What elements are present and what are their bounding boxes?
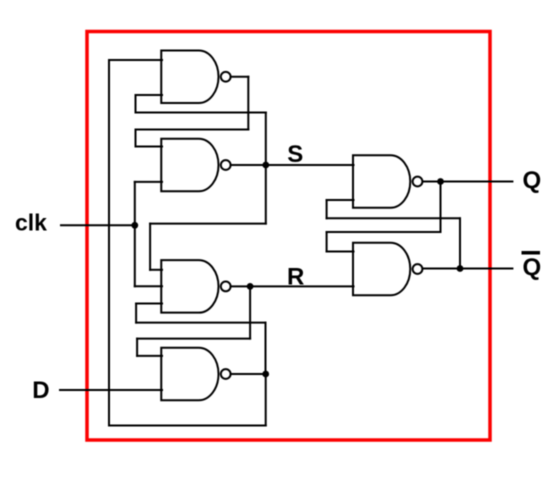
wire Q output [423,181,513,183]
wire vertical jog to U3 bottom input [135,304,137,323]
wire vertical jog to U1 lower input [135,95,137,113]
wire Q feedback horizontal [327,231,441,233]
wire S line (U2 output to U5 input) [231,164,354,166]
wire U3 top input [150,269,162,271]
node U4 output junction [262,371,269,378]
wire bottom loop horizontal [109,425,266,427]
wire U4 top input [137,355,162,357]
wire Qbar feedback vertical [459,218,461,268]
wire U4 output [231,373,266,375]
svg-text:clk: clk [15,210,47,236]
wire D input [60,389,162,391]
node S junction [262,162,269,169]
wire node S vertical down [265,165,267,224]
wire clk vertical bus [134,182,136,286]
wire jog for U5 lower input [326,200,328,218]
wire clk to U2 lower input [135,181,162,183]
node clk junction [131,222,138,229]
wire R feedback horizontal [137,338,250,340]
wire Qbar output [423,268,513,270]
wire long left vertical (U4 output to U1) [108,60,110,426]
wire R line (U3 output to U6 input) [231,285,354,287]
wire U5 lower input [327,199,354,201]
wire clk to U3 middle input [135,285,162,287]
node Q junction [437,178,444,185]
nand gate U3 [161,260,230,313]
wire node R vertical down [249,286,251,338]
wire U1 output [231,76,249,78]
svg-text:Q: Q [523,254,542,281]
svg-text:Q: Q [523,167,542,194]
wire U6 upper input [327,251,354,253]
svg-text:S: S [287,141,303,168]
boundary box (red) [87,32,490,441]
wire U2 upper input [136,146,163,148]
wire U1 lower input [136,94,163,96]
wire S feedback horizontal [150,223,266,225]
wire vertical jog to U4 top input [136,339,138,356]
wire U3 bottom input [136,303,162,305]
wire jog for U6 upper input [326,232,328,252]
nand gate U5 [353,155,422,208]
wire node S vertical up [265,113,267,166]
wire vertical jog to U3 top input [149,224,151,270]
wire U4 output node vertical down [265,374,267,426]
wire U1 top input [109,59,162,61]
node R junction [247,283,254,290]
nand gate U2 [161,139,230,192]
wire Q feedback vertical [440,182,442,233]
label Qbar [522,251,542,281]
wire clk input [61,224,135,226]
node Qbar junction [457,265,464,272]
wire vertical jog to U2 upper input [135,130,137,147]
svg-text:R: R [287,263,304,290]
wire U4 output node vertical up [265,323,267,374]
wire U1 output return horizontal [136,129,249,131]
wire U1 output vertical [247,77,249,130]
nand gate U1 [161,51,230,104]
nand gate U6 [353,243,422,296]
wire node S to U1 lower input horizontal [136,112,266,114]
nand gate U4 [161,348,230,401]
svg-text:D: D [32,377,49,404]
wire horizontal to U3 bottom input [136,322,265,324]
wire Qbar feedback horizontal [327,217,460,219]
